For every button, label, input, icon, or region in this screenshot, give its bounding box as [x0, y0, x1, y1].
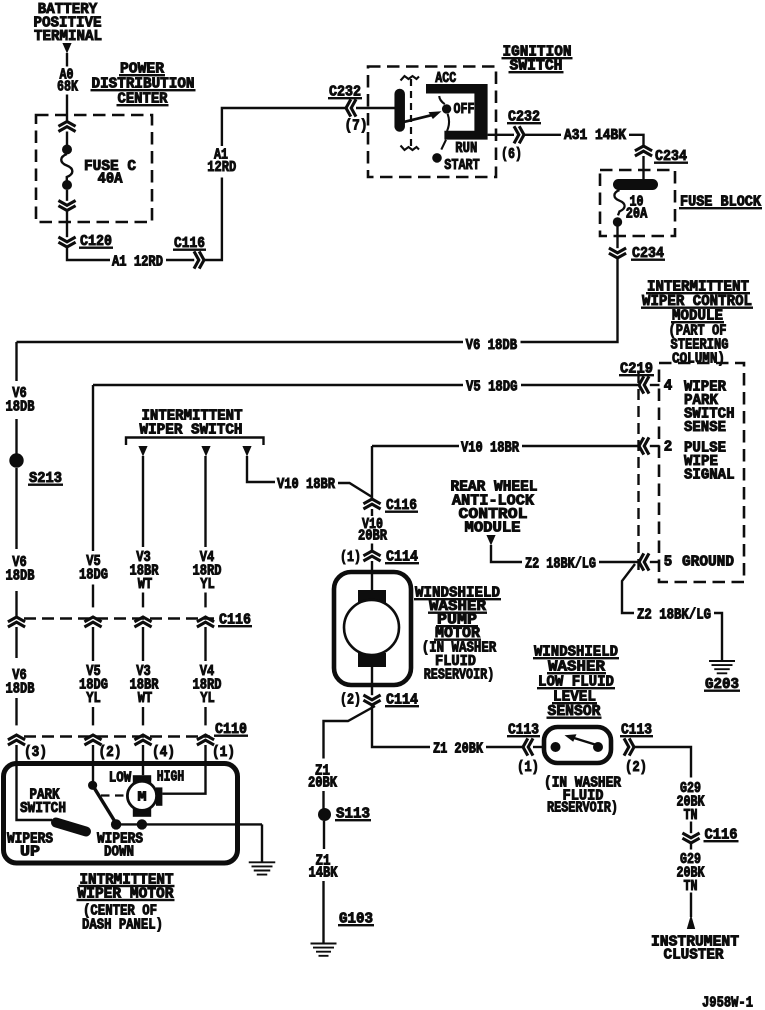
wires to C110 row: [15, 698, 17, 725]
wires into wiper motor box: [15, 745, 17, 766]
connector C116 chevron on A1 wire: [194, 251, 204, 268]
wire G29 to instrument cluster: [690, 893, 692, 918]
wire Z1 20BK main to sensor: [372, 705, 430, 747]
connector C113 chevron (1): [523, 738, 533, 755]
svg-text:18DB: 18DB: [6, 398, 35, 415]
wire V10 main down to C116: [371, 446, 373, 499]
wiper switch terminal arrow V4: [201, 446, 210, 457]
wire PDC to C120: [66, 211, 68, 238]
fuse C element with terminal dots: [62, 145, 72, 155]
wire stub pin 4: [650, 384, 660, 386]
wire A31 left segment: [524, 134, 561, 136]
ground symbol at wiper motor: [249, 862, 276, 874]
connector C232 chevron (7): [346, 99, 356, 116]
wire A31 to fuse block: [629, 135, 644, 146]
intermittent wiper motor box: [4, 764, 238, 864]
connector C114 chevron bottom: [363, 695, 380, 705]
contact dot START: [432, 153, 442, 163]
wire into fuse block: [642, 156, 644, 181]
svg-text:START: START: [444, 157, 480, 174]
connector C120 chevron: [58, 237, 75, 247]
svg-text:Z2 18BK/LG: Z2 18BK/LG: [525, 556, 596, 573]
connector C110 chevrons row: [8, 735, 25, 745]
module dashed box: [659, 363, 744, 582]
ignition switch pivot contact bar: [394, 94, 405, 127]
wire to fuse C: [66, 132, 68, 146]
ground symbol G103: [311, 944, 337, 956]
svg-text:V10 18BR: V10 18BR: [461, 440, 519, 457]
wire V6 park switch feed: [17, 766, 53, 820]
svg-text:SIGNAL: SIGNAL: [684, 467, 735, 484]
svg-text:(1): (1): [212, 744, 235, 761]
svg-text:20BK: 20BK: [308, 774, 337, 791]
wire V10 18BR horizontal: [372, 445, 459, 447]
svg-text:(1): (1): [340, 549, 361, 566]
svg-text:18DG: 18DG: [79, 566, 108, 583]
wire V3 segment: [142, 593, 144, 608]
svg-text:YL: YL: [86, 690, 101, 707]
wire V6 to splice S213: [15, 419, 17, 454]
svg-text:Z2 18BK/LG: Z2 18BK/LG: [637, 607, 711, 624]
level sensor box: [544, 727, 611, 763]
svg-text:(6): (6): [501, 146, 522, 163]
svg-text:18DB: 18DB: [6, 567, 35, 584]
level sensor contact dots: [551, 742, 561, 752]
arc ACC to OFF: [439, 96, 445, 104]
svg-text:A1 12RD: A1 12RD: [112, 254, 163, 271]
svg-text:(7): (7): [345, 118, 368, 135]
wire motor common to ground: [116, 823, 262, 825]
wiper motor M top brush: [133, 775, 151, 783]
connector C110 dashed row: [24, 735, 210, 738]
pivot contact dot: [88, 781, 97, 790]
svg-text:WIPER SWITCH: WIPER SWITCH: [140, 422, 243, 439]
svg-text:12RD: 12RD: [207, 159, 236, 176]
connector C116 chevron on G29: [682, 833, 699, 843]
park switch lever thick: [56, 823, 86, 832]
wire A0 into power distribution center: [66, 95, 68, 122]
wire V10 leader diagonal to main run: [338, 483, 372, 497]
ignition switch dashed box: [368, 67, 496, 178]
level sensor switch arm arrow: [574, 738, 595, 745]
splice S113: [318, 808, 331, 821]
ignition switch C-shaped contact ACC-RUN: [426, 84, 488, 140]
svg-text:TN: TN: [684, 807, 698, 824]
svg-text:(2): (2): [340, 692, 361, 709]
svg-text:(3): (3): [24, 744, 47, 761]
svg-text:4: 4: [664, 378, 673, 395]
svg-text:RESERVOIR): RESERVOIR): [424, 667, 495, 684]
svg-text:TERMINAL: TERMINAL: [34, 28, 102, 45]
connector C234 chevron top: [635, 146, 652, 156]
connector C219 chevron pin 4: [639, 376, 649, 393]
svg-text:WT: WT: [138, 690, 153, 707]
svg-text:68K: 68K: [57, 79, 78, 96]
wire V10 from switch with leader: [247, 456, 275, 482]
wire V3 from switch: [142, 456, 144, 547]
svg-text:V10 18BR: V10 18BR: [277, 476, 335, 493]
svg-text:OFF: OFF: [454, 101, 475, 118]
svg-text:2: 2: [664, 439, 673, 456]
washer pump motor brush bottom: [358, 653, 386, 667]
svg-text:GROUND: GROUND: [682, 554, 734, 571]
svg-text:ACC: ACC: [435, 70, 456, 87]
wire Z2 to ground G203: [714, 613, 722, 660]
instrument cluster off-page arrow: [687, 915, 695, 930]
wire V6 18DB from fuse block to left column: [521, 258, 618, 342]
wire V4 from switch: [204, 456, 206, 547]
rear wheel module off-page arrow: [486, 535, 495, 546]
wire washer pump motor output: [371, 667, 373, 695]
svg-text:V6 18DB: V6 18DB: [466, 337, 517, 354]
wire stub pin 2: [650, 445, 660, 447]
wire V4 high feed: [162, 766, 205, 794]
svg-text:TN: TN: [684, 878, 698, 895]
ignition switch detent dashed line: [410, 79, 412, 146]
svg-text:RESERVOIR): RESERVOIR): [547, 800, 618, 817]
wire ignition switch output: [488, 134, 514, 136]
connector C114 chevron top: [363, 551, 380, 561]
wiper motor M right brush: [156, 787, 162, 805]
svg-text:COLUMN): COLUMN): [672, 351, 725, 368]
svg-text:LOW: LOW: [109, 769, 132, 786]
wire into washer pump motor: [371, 561, 373, 591]
connector C116 chevrons row: [8, 617, 25, 627]
splice S213: [9, 453, 23, 467]
wire Z2 ground branch diagonal: [622, 564, 635, 613]
svg-text:A31 14BK: A31 14BK: [564, 127, 626, 144]
connector C116 dashed row: [24, 617, 214, 620]
wire Z1 to S113: [322, 791, 324, 809]
motor bottom junction dot: [137, 819, 147, 829]
wire C232 into ignition switch: [356, 107, 395, 109]
wire fuse block output: [616, 227, 618, 249]
svg-text:(2): (2): [99, 744, 122, 761]
svg-text:5: 5: [664, 554, 673, 571]
wire Z1 to ground G103: [322, 881, 324, 943]
svg-text:(4): (4): [152, 744, 175, 761]
connector chevron inside PDC: [58, 122, 75, 132]
battery off-page arrow: [62, 43, 71, 54]
svg-text:14BK: 14BK: [309, 864, 338, 881]
wire A1 upper segment to C232: [222, 108, 346, 146]
connector C219 chevron pin 2: [639, 437, 649, 454]
washer pump motor armature circle: [344, 600, 399, 655]
svg-text:RUN: RUN: [455, 140, 477, 157]
wire V3 into motor: [142, 766, 144, 775]
svg-text:MODULE: MODULE: [465, 520, 521, 537]
connector C232 chevron (6): [514, 126, 524, 143]
connector C113 chevron (2): [624, 738, 634, 755]
wire V4 segment: [204, 593, 206, 608]
wire V5 18DG horizontal: [93, 384, 463, 386]
wiper switch terminal arrow V10: [242, 446, 251, 457]
svg-text:SWITCH: SWITCH: [20, 800, 66, 817]
wire A1 to C116 chevron: [166, 259, 194, 261]
svg-text:J958W-1: J958W-1: [702, 995, 753, 1010]
wire A1 up to ignition switch: [204, 178, 222, 261]
wiper switch terminal arrow V3: [138, 446, 147, 457]
svg-text:Z1 20BK: Z1 20BK: [433, 741, 483, 758]
connector C219 dashed line: [637, 372, 639, 570]
svg-text:HIGH: HIGH: [157, 768, 185, 785]
wire from fuse C to PDC bottom chevron: [66, 190, 68, 201]
wire down from C120 and right along A1: [67, 247, 110, 260]
ignition switch top detent hook: [401, 76, 420, 81]
svg-text:V5 18DG: V5 18DG: [466, 379, 518, 396]
wire V6 below S213: [15, 468, 17, 549]
svg-text:M: M: [138, 791, 147, 806]
wire stub pin 5: [650, 561, 660, 563]
arc OFF to RUN: [447, 114, 449, 131]
wire V6 column down from corner: [15, 342, 17, 381]
fuse block bus bar: [619, 179, 653, 190]
connector C234 chevron bottom: [609, 248, 626, 258]
contact dot OFF: [442, 104, 451, 113]
wire Z1 below S113: [323, 821, 325, 849]
svg-text:YL: YL: [200, 690, 215, 707]
wire sensor output to G29 corner: [634, 747, 691, 778]
ignition switch bottom detent hook: [401, 146, 420, 151]
wire Z1 branch diagonal to S113: [324, 706, 376, 759]
wire Z2 from rear wheel module: [491, 545, 522, 562]
svg-text:18DB: 18DB: [6, 680, 35, 697]
power distribution center dashed box: [36, 115, 152, 222]
wires below C116 row: [15, 627, 17, 658]
svg-text:20BR: 20BR: [358, 528, 387, 545]
wire V5 segments: [92, 385, 94, 551]
wire V6 to C116 row: [15, 591, 17, 617]
wire A0 from battery arrow: [66, 53, 68, 67]
switch lever to wipers down: [93, 785, 116, 822]
connector chevron PDC bottom: [58, 201, 75, 211]
svg-text:20A: 20A: [626, 206, 648, 223]
wipers down contact dot: [111, 819, 121, 829]
wire V5 to pivot dot: [92, 766, 94, 785]
svg-text:SENSE: SENSE: [684, 419, 726, 436]
svg-text:40A: 40A: [98, 171, 123, 188]
windshield washer pump motor box: [334, 572, 411, 685]
wire V10 20BR segment: [371, 509, 373, 516]
wire G29 to C116: [690, 822, 692, 834]
svg-text:WT: WT: [138, 576, 153, 593]
svg-text:DASH PANEL): DASH PANEL): [82, 916, 163, 933]
svg-text:UP: UP: [20, 843, 40, 860]
wire into level sensor: [533, 746, 545, 748]
svg-text:(1): (1): [517, 759, 539, 776]
connector C116 chevron on V10: [363, 499, 380, 509]
wiper motor M bottom brush: [133, 809, 151, 817]
ground symbol G203: [709, 661, 735, 673]
washer pump motor brush top: [358, 590, 386, 604]
fuse 10 20A element: [614, 190, 624, 215]
wiper motor M circle: [127, 781, 156, 810]
wire G29 below C116: [690, 843, 692, 850]
connector C219 chevron pin 5: [639, 553, 649, 570]
linkage dashed: [101, 794, 126, 796]
wiper switch bracket: [126, 438, 264, 446]
ignition wiper arrow to OFF: [400, 115, 433, 123]
wire Z2 to pin 5: [599, 561, 639, 563]
wire Z1 to C113: [486, 746, 523, 748]
svg-text:YL: YL: [200, 576, 215, 593]
svg-text:(2): (2): [625, 759, 647, 776]
fuse block dashed box: [600, 170, 675, 236]
svg-text:CLUSTER: CLUSTER: [664, 947, 724, 964]
arc RUN to START: [441, 140, 446, 150]
svg-text:DOWN: DOWN: [104, 843, 134, 860]
